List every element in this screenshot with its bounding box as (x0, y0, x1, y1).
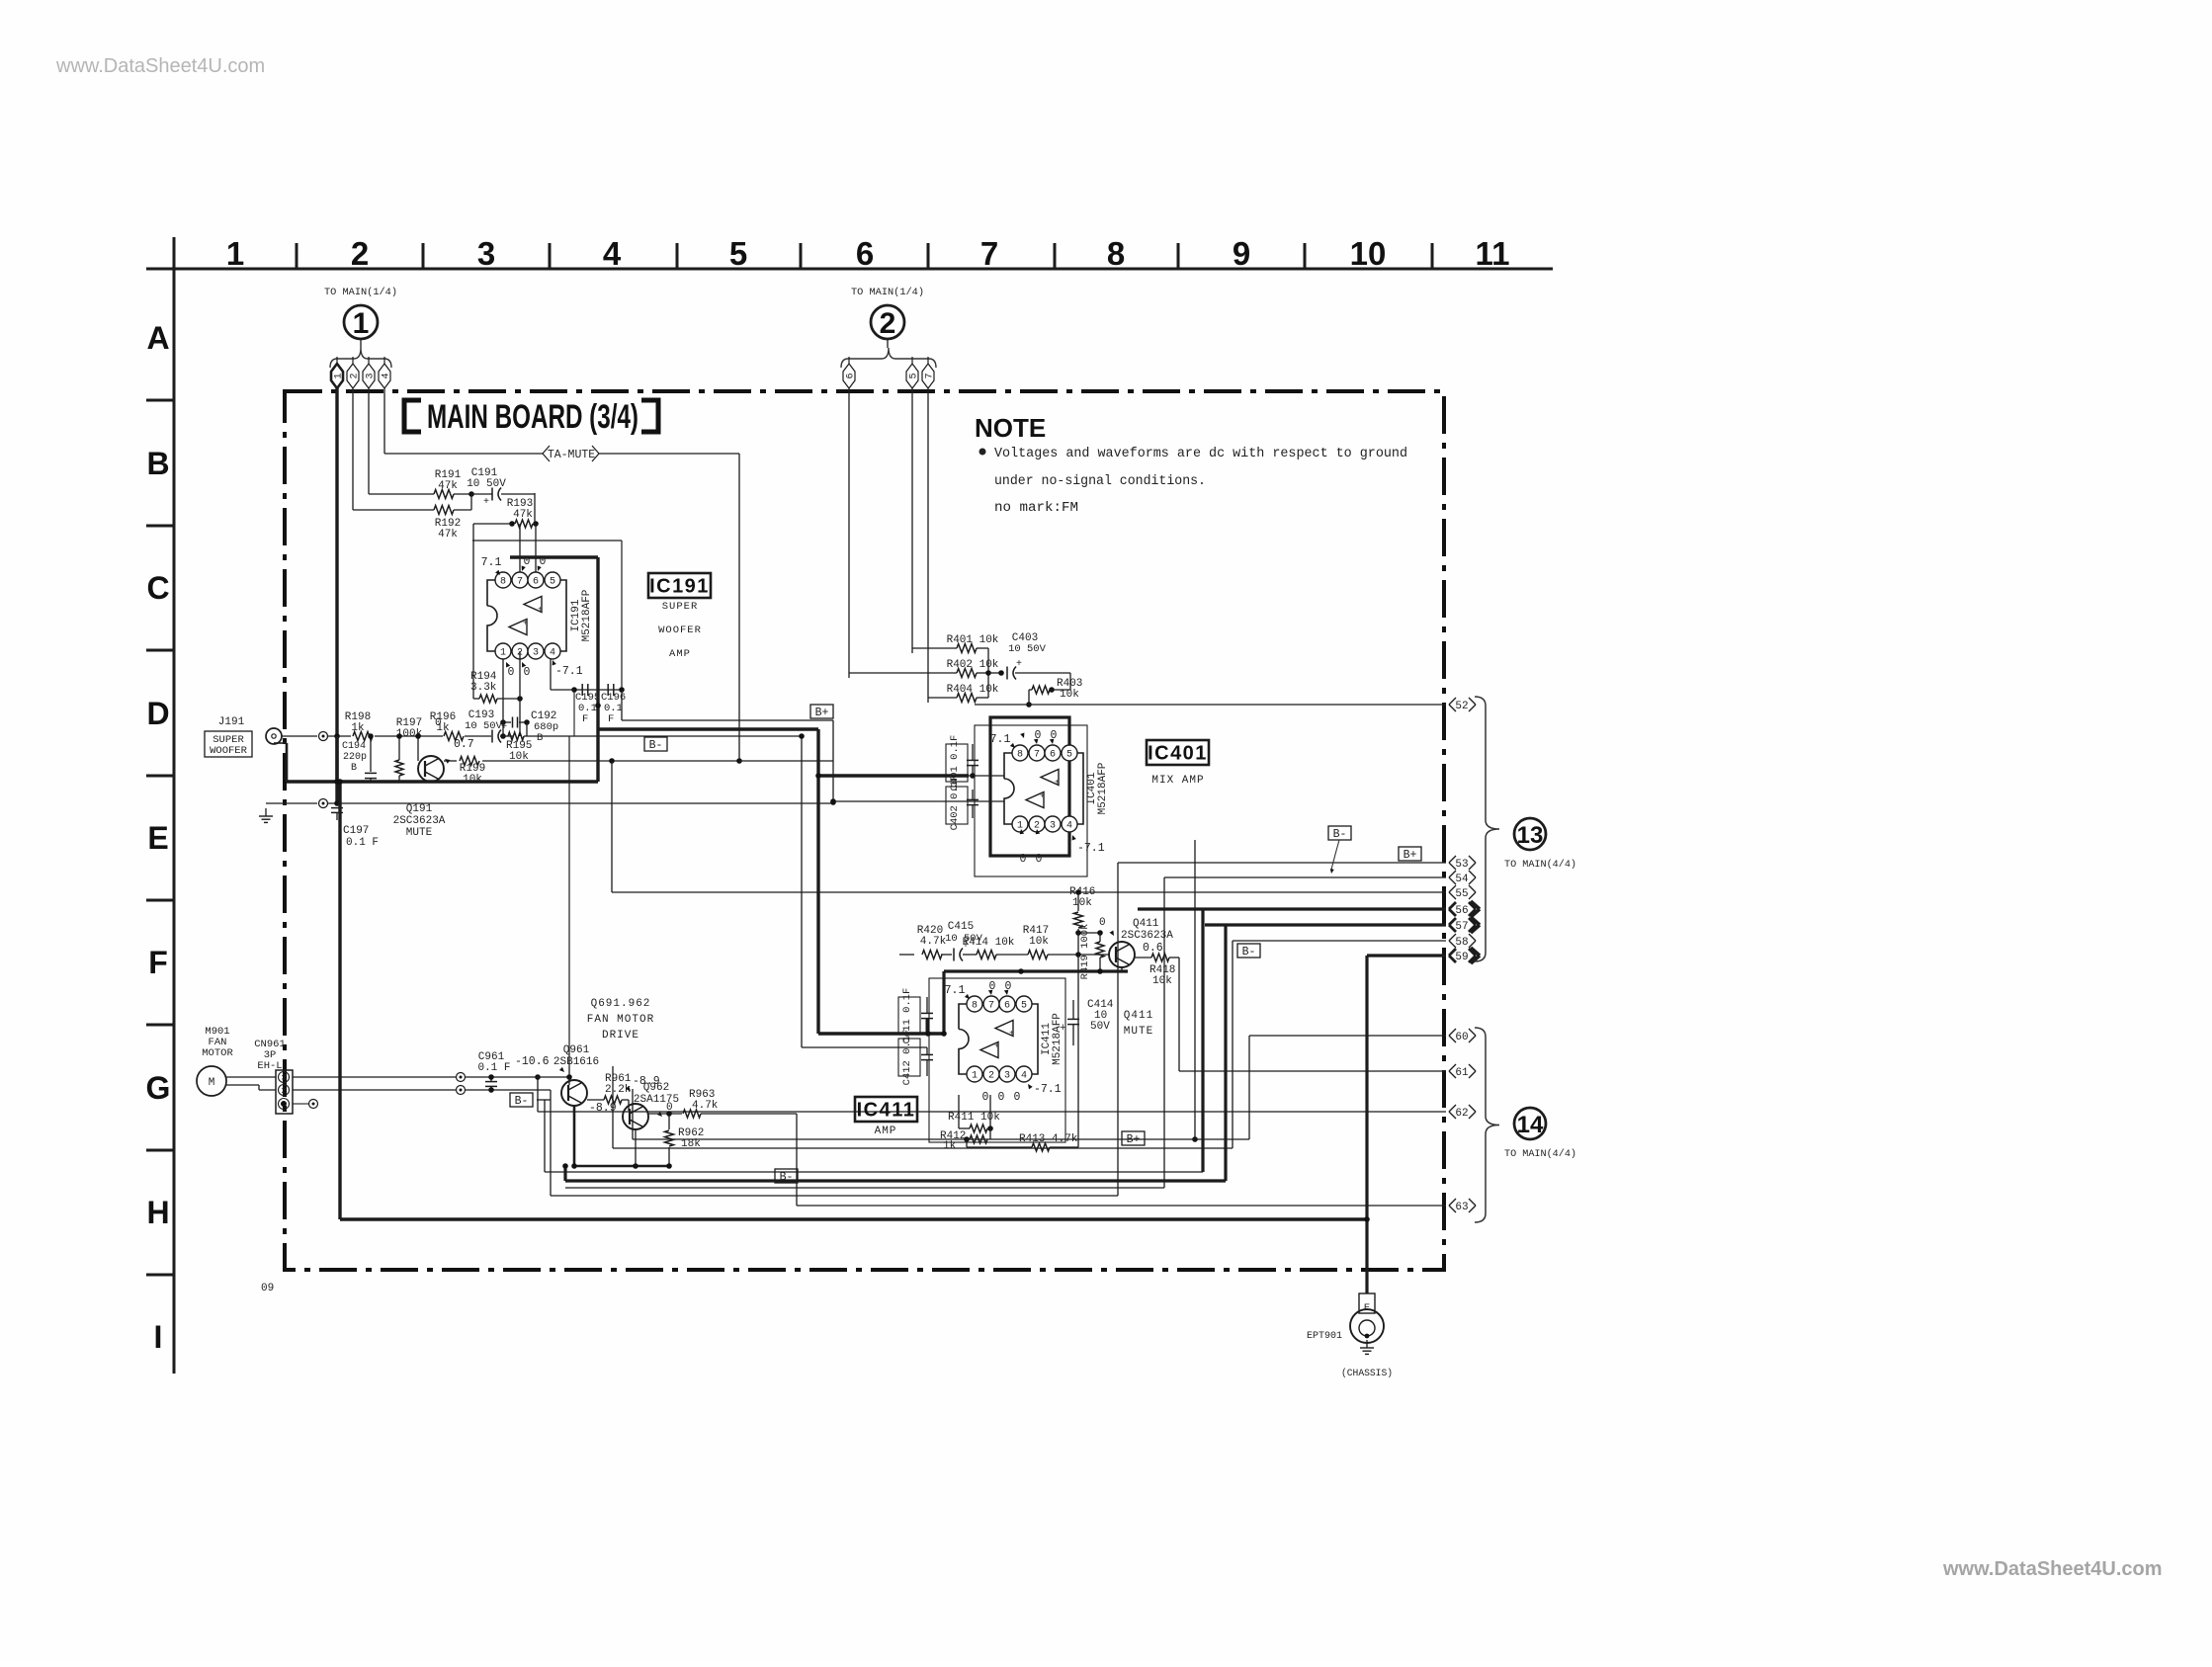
svg-text:2.2k: 2.2k (605, 1084, 632, 1096)
svg-text:TO MAIN(1/4): TO MAIN(1/4) (851, 287, 924, 298)
svg-text:IC401: IC401 (1148, 743, 1208, 765)
svg-text:1k: 1k (351, 722, 365, 734)
svg-text:0.1 F: 0.1 F (477, 1062, 510, 1074)
svg-text:3.3k: 3.3k (470, 682, 497, 694)
svg-text:B-: B- (780, 1171, 794, 1184)
svg-text:10: 10 (1350, 235, 1387, 272)
svg-text:9: 9 (1233, 235, 1250, 272)
svg-text:0: 0 (1020, 853, 1027, 866)
svg-text:7: 7 (517, 577, 523, 588)
svg-text:TA-MUTE: TA-MUTE (548, 449, 595, 461)
svg-text:54: 54 (1455, 874, 1469, 885)
svg-text:E: E (147, 820, 168, 856)
svg-text:10k: 10k (1152, 975, 1172, 987)
svg-text:Q961: Q961 (563, 1044, 590, 1056)
svg-text:10k: 10k (1060, 689, 1079, 701)
svg-text:Voltages and waveforms are dc: Voltages and waveforms are dc with respe… (994, 447, 1407, 461)
svg-text:M: M (209, 1077, 215, 1089)
svg-text:56: 56 (1455, 905, 1468, 917)
svg-text:+: + (1060, 1023, 1066, 1035)
svg-text:2: 2 (880, 307, 896, 340)
svg-text:R413 4.7k: R413 4.7k (1019, 1133, 1078, 1145)
svg-text:6: 6 (1004, 1001, 1010, 1012)
svg-text:R402 10k: R402 10k (947, 659, 999, 671)
svg-text:4: 4 (382, 373, 392, 378)
svg-text:09: 09 (261, 1283, 274, 1294)
svg-text:0: 0 (998, 1091, 1005, 1104)
svg-text:R411 10k: R411 10k (948, 1112, 1000, 1124)
svg-text:55: 55 (1455, 888, 1468, 900)
svg-text:C: C (146, 570, 169, 606)
svg-text:Q411: Q411 (1133, 918, 1159, 930)
svg-text:2: 2 (281, 1086, 286, 1096)
svg-text:7.1: 7.1 (990, 733, 1011, 746)
svg-text:0.7: 0.7 (454, 738, 474, 751)
svg-text:6: 6 (1050, 750, 1056, 761)
svg-text:7: 7 (1034, 750, 1040, 761)
svg-text:7.1: 7.1 (945, 984, 966, 997)
svg-text:C194: C194 (342, 741, 366, 752)
svg-text:R414 10k: R414 10k (963, 937, 1015, 949)
svg-text:B+: B+ (1127, 1133, 1141, 1146)
svg-text:3: 3 (366, 373, 377, 378)
svg-text:B-: B- (649, 739, 663, 752)
svg-text:WOOFER: WOOFER (210, 745, 248, 757)
svg-text:SUPER: SUPER (662, 601, 699, 613)
svg-text:-7.1: -7.1 (1077, 842, 1105, 855)
svg-text:10k: 10k (463, 774, 482, 786)
svg-text:5: 5 (550, 577, 555, 588)
svg-text:8: 8 (500, 577, 506, 588)
svg-text:1: 1 (972, 1071, 978, 1082)
svg-text:14: 14 (1517, 1112, 1544, 1138)
svg-text:5: 5 (1021, 1001, 1027, 1012)
svg-text:13: 13 (1517, 822, 1544, 849)
svg-text:5: 5 (1066, 750, 1072, 761)
svg-text:-8.9: -8.9 (589, 1102, 617, 1115)
svg-text:Q191: Q191 (406, 803, 433, 815)
svg-text:MOTOR: MOTOR (202, 1047, 233, 1059)
svg-text:1k: 1k (436, 722, 450, 734)
svg-text:TO MAIN(1/4): TO MAIN(1/4) (324, 287, 397, 298)
svg-text:www.DataSheet4U.com: www.DataSheet4U.com (1942, 1558, 2163, 1580)
svg-text:+: + (523, 620, 528, 628)
svg-text:2: 2 (351, 235, 369, 272)
svg-text:1: 1 (1017, 821, 1023, 832)
svg-text:4: 4 (603, 235, 622, 272)
svg-text:B-: B- (1333, 828, 1347, 841)
svg-text:8: 8 (972, 1001, 978, 1012)
svg-text:M5218AFP: M5218AFP (1052, 1013, 1063, 1065)
svg-text:60: 60 (1455, 1032, 1468, 1043)
svg-text:EPT901: EPT901 (1307, 1331, 1342, 1342)
svg-text:E: E (1364, 1302, 1370, 1314)
svg-text:-10.6: -10.6 (515, 1055, 550, 1068)
svg-text:B+: B+ (815, 707, 829, 719)
svg-text:F: F (582, 713, 588, 725)
svg-text:+: + (501, 722, 507, 733)
svg-text:10k: 10k (1072, 897, 1092, 909)
svg-text:H: H (146, 1195, 169, 1230)
svg-text:www.DataSheet4U.com: www.DataSheet4U.com (55, 55, 265, 77)
svg-text:Q411: Q411 (1124, 1010, 1153, 1022)
svg-text:Q962: Q962 (643, 1082, 669, 1094)
svg-text:M5218AFP: M5218AFP (581, 589, 593, 641)
svg-text:11: 11 (1476, 235, 1510, 272)
svg-text:8: 8 (1107, 235, 1125, 272)
svg-text:TO MAIN(4/4): TO MAIN(4/4) (1504, 1148, 1576, 1160)
svg-text:0: 0 (508, 666, 515, 679)
svg-text:62: 62 (1455, 1108, 1468, 1120)
svg-text:R419 100k: R419 100k (1079, 924, 1091, 980)
svg-text:C402 0.1F: C402 0.1F (949, 775, 961, 831)
svg-text:B+: B+ (1404, 849, 1417, 862)
svg-text:DRIVE: DRIVE (602, 1030, 639, 1042)
svg-text:47k: 47k (438, 529, 458, 541)
svg-text:-7.1: -7.1 (1034, 1083, 1062, 1096)
svg-text:50V: 50V (1090, 1021, 1110, 1033)
svg-text:0: 0 (524, 666, 531, 679)
svg-text:7: 7 (980, 235, 998, 272)
svg-text:6: 6 (533, 577, 539, 588)
svg-text:+: + (1055, 779, 1060, 788)
svg-text:WOOFER: WOOFER (658, 625, 702, 636)
svg-text:0.1 F: 0.1 F (346, 837, 379, 849)
svg-text:0: 0 (1036, 853, 1043, 866)
svg-text:58: 58 (1455, 937, 1468, 949)
svg-text:2: 2 (350, 373, 361, 378)
svg-text:10 50V: 10 50V (1008, 643, 1047, 655)
svg-text:C197: C197 (343, 825, 369, 837)
svg-text:18k: 18k (681, 1138, 701, 1150)
svg-text:+: + (1040, 792, 1045, 801)
svg-text:63: 63 (1455, 1202, 1468, 1213)
svg-text:4: 4 (550, 648, 555, 659)
svg-text:B: B (537, 732, 543, 744)
svg-text:5: 5 (729, 235, 747, 272)
svg-text:MUTE: MUTE (1124, 1026, 1153, 1038)
svg-text:3: 3 (1004, 1071, 1010, 1082)
svg-text:4: 4 (1021, 1071, 1027, 1082)
svg-text:2SC3623A: 2SC3623A (1121, 930, 1173, 942)
svg-text:D: D (146, 696, 169, 731)
svg-text:C412 0.1F: C412 0.1F (901, 1030, 913, 1086)
svg-text:1: 1 (226, 235, 244, 272)
svg-text:3: 3 (477, 235, 495, 272)
svg-text:52: 52 (1455, 701, 1468, 712)
svg-text:IC411: IC411 (857, 1100, 916, 1122)
svg-text:1k: 1k (943, 1140, 957, 1152)
svg-text:7: 7 (925, 373, 936, 378)
svg-text:G: G (146, 1070, 171, 1106)
svg-text:-7.1: -7.1 (555, 665, 583, 678)
svg-text:220p: 220p (343, 752, 367, 763)
svg-text:0: 0 (982, 1091, 989, 1104)
svg-text:F: F (148, 945, 168, 980)
svg-text:MIX AMP: MIX AMP (1151, 775, 1204, 787)
svg-text:57: 57 (1455, 921, 1468, 933)
svg-text:C415: C415 (948, 921, 974, 933)
svg-text:AMP: AMP (875, 1125, 897, 1137)
svg-text:under no-signal conditions.: under no-signal conditions. (994, 474, 1206, 489)
svg-text:MUTE: MUTE (406, 827, 433, 839)
svg-text:7: 7 (988, 1001, 994, 1012)
svg-text:2SC3623A: 2SC3623A (393, 815, 446, 827)
svg-text:59: 59 (1455, 952, 1468, 963)
svg-text:F: F (608, 713, 614, 725)
svg-text:6: 6 (846, 373, 857, 378)
svg-text:3: 3 (533, 648, 539, 659)
svg-text:4.7k: 4.7k (920, 936, 947, 948)
svg-text:B-: B- (515, 1095, 529, 1108)
svg-text:MAIN BOARD (3/4): MAIN BOARD (3/4) (427, 398, 638, 436)
svg-text:2: 2 (988, 1071, 994, 1082)
svg-text:2SB1616: 2SB1616 (553, 1056, 599, 1068)
svg-text:10 50V: 10 50V (465, 720, 503, 732)
svg-text:+: + (538, 606, 543, 615)
svg-text:Q691.962: Q691.962 (591, 998, 651, 1010)
svg-text:0: 0 (1099, 917, 1106, 929)
svg-text:4: 4 (1066, 821, 1072, 832)
svg-text:FAN MOTOR: FAN MOTOR (587, 1014, 654, 1026)
svg-text:0: 0 (1014, 1091, 1021, 1104)
svg-text:(CHASSIS): (CHASSIS) (1341, 1368, 1393, 1379)
svg-text:+: + (483, 497, 489, 508)
svg-text:AMP: AMP (669, 648, 691, 660)
svg-text:IC191: IC191 (649, 576, 710, 598)
svg-text:6: 6 (856, 235, 874, 272)
svg-text:8: 8 (1017, 750, 1023, 761)
svg-text:1: 1 (334, 373, 345, 378)
svg-text:R404 10k: R404 10k (947, 684, 999, 696)
svg-text:A: A (146, 320, 169, 356)
svg-text:61: 61 (1455, 1067, 1469, 1079)
svg-text:+: + (1016, 659, 1022, 670)
svg-text:no mark:FM: no mark:FM (994, 501, 1078, 516)
svg-text:NOTE: NOTE (975, 413, 1046, 443)
svg-text:10k: 10k (1029, 936, 1049, 948)
svg-text:3: 3 (1050, 821, 1056, 832)
svg-text:+: + (1009, 1030, 1014, 1039)
svg-text:I: I (154, 1319, 163, 1355)
svg-text:R401 10k: R401 10k (947, 634, 999, 646)
svg-text:B: B (351, 763, 357, 774)
svg-text:B: B (146, 446, 169, 481)
svg-text:1: 1 (500, 648, 506, 659)
svg-text:53: 53 (1455, 859, 1468, 871)
svg-text:3: 3 (281, 1073, 286, 1083)
svg-text:+: + (994, 1042, 999, 1051)
svg-text:B-: B- (1242, 946, 1256, 959)
svg-text:J191: J191 (218, 716, 245, 728)
svg-text:7.1: 7.1 (481, 556, 502, 569)
svg-text:M5218AFP: M5218AFP (1097, 762, 1109, 814)
svg-text:TO MAIN(4/4): TO MAIN(4/4) (1504, 859, 1576, 871)
svg-text:5: 5 (909, 373, 920, 378)
svg-text:1: 1 (353, 307, 370, 340)
